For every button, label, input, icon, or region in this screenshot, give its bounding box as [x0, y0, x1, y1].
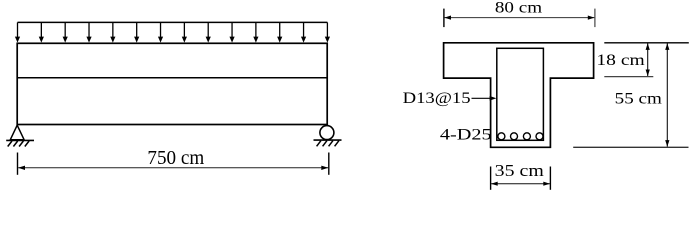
dimension 750 cm extension tick right [328, 153, 330, 175]
extension line at flange bottom (right side) [604, 76, 653, 78]
load arrow 6 [134, 22, 139, 42]
dimension 80 cm extension tick right [594, 9, 596, 28]
svg-text:18 cm: 18 cm [596, 52, 645, 69]
dimension 35 cm extension tick left [490, 167, 492, 190]
pin support hatching [8, 141, 29, 147]
svg-text:D13@15: D13@15 [403, 90, 471, 107]
load arrow 10 [229, 22, 234, 42]
svg-text:4-D25: 4-D25 [440, 126, 492, 143]
rebar 4-D25 circles [498, 133, 543, 140]
load arrow 14 [325, 22, 330, 42]
svg-text:55 cm: 55 cm [615, 88, 663, 107]
stirrup D13@15 rectangle [497, 48, 544, 140]
roller support hatching [317, 141, 339, 147]
load arrow 2 [39, 22, 44, 42]
load arrow 11 [253, 22, 258, 42]
load arrow 3 [63, 22, 68, 42]
roller support (right): circle [320, 126, 334, 140]
roller support ground line [314, 139, 342, 141]
dimension 55 cm line with arrowheads [665, 43, 669, 147]
load arrow 4 [86, 22, 91, 42]
beam mid horizontal line [17, 77, 327, 79]
beam outline [17, 43, 327, 124]
dimension 35 cm line with arrowheads [491, 182, 550, 186]
T-section outline (flange + web) [444, 43, 594, 148]
load arrow 12 [277, 22, 282, 42]
pin support ground line [6, 139, 34, 141]
svg-text:35 cm: 35 cm [495, 161, 544, 180]
dimension 750 cm line with arrowheads [18, 166, 328, 170]
svg-text:80 cm: 80 cm [495, 0, 542, 16]
load arrow 8 [182, 22, 187, 42]
load arrow 1 [15, 22, 20, 42]
load arrow 13 [301, 22, 306, 42]
dimension 750 cm extension tick left [17, 153, 19, 175]
leader arrow from D13@15 to stirrup [472, 96, 497, 101]
load arrow 7 [158, 22, 163, 42]
extension line at flange top (right side) [604, 42, 689, 44]
distributed load line [18, 21, 328, 23]
dimension 80 cm extension tick left [443, 9, 445, 28]
dimension 18 cm line with arrowheads [646, 43, 650, 76]
load arrow 9 [206, 22, 211, 42]
pin support (left): triangle [10, 125, 24, 140]
extension line at web bottom (right side) [573, 146, 688, 148]
dimension 35 cm extension tick right [549, 167, 551, 190]
dimension 80 cm line with arrowheads [444, 16, 594, 20]
load arrow 5 [110, 22, 115, 42]
svg-text:750 cm: 750 cm [147, 148, 204, 169]
